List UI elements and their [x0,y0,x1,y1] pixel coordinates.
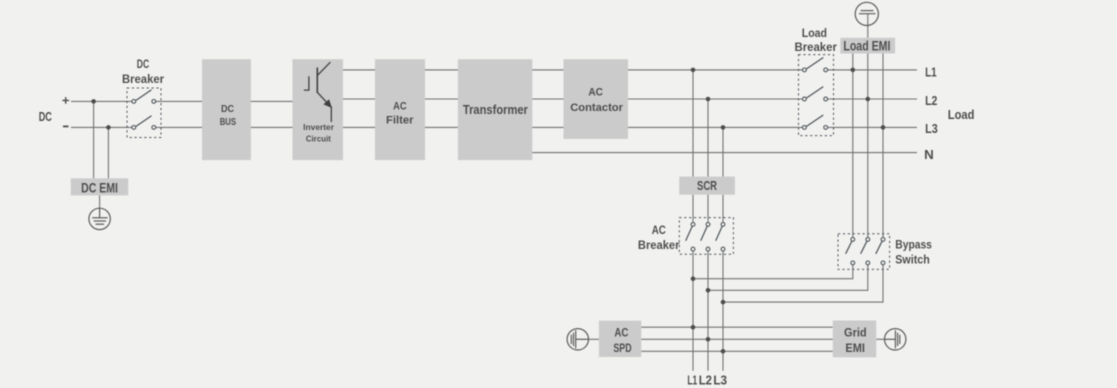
svg-text:Circuit: Circuit [306,134,331,144]
svg-text:Load: Load [948,107,975,122]
svg-text:Transformer: Transformer [463,102,528,117]
svg-text:L2: L2 [699,373,712,388]
svg-text:DC: DC [39,110,52,124]
svg-text:Bypass: Bypass [895,239,932,252]
svg-text:EMI: EMI [845,341,865,355]
svg-text:Switch: Switch [895,253,930,266]
svg-text:DC: DC [137,57,150,71]
svg-text:Load EMI: Load EMI [843,38,890,53]
svg-text:L1: L1 [687,373,697,388]
svg-text:Load: Load [802,26,827,40]
svg-text:L2: L2 [925,93,937,108]
svg-text:Filter: Filter [386,115,414,127]
svg-text:Breaker: Breaker [122,72,164,86]
svg-text:Grid: Grid [844,325,867,339]
svg-text:L1: L1 [925,64,937,79]
svg-text:Breaker: Breaker [638,238,680,252]
svg-text:Inverter: Inverter [303,122,335,132]
svg-text:AC: AC [588,86,603,98]
svg-text:SCR: SCR [697,178,717,193]
svg-text:DC: DC [221,104,235,115]
svg-text:AC: AC [393,100,407,112]
svg-text:Contactor: Contactor [570,102,623,114]
svg-text:L3: L3 [713,373,727,388]
svg-text:AC: AC [652,223,666,237]
svg-text:L3: L3 [925,121,938,136]
svg-text:DC EMI: DC EMI [81,180,118,195]
svg-text:Breaker: Breaker [795,40,838,54]
svg-text:N: N [924,147,934,162]
svg-text:SPD: SPD [613,341,631,355]
svg-text:BUS: BUS [220,117,237,128]
svg-text:AC: AC [614,325,628,339]
